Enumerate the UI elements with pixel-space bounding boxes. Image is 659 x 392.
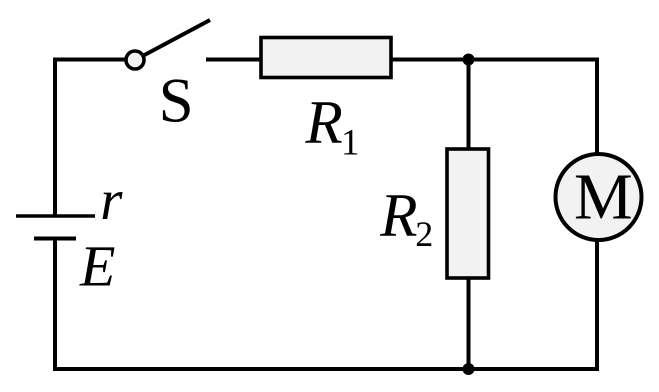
svg-text:2: 2 bbox=[415, 214, 433, 254]
wire: bottom horizontal (left corner to right corner) bbox=[53, 367, 599, 371]
motor M: circle body bbox=[556, 154, 642, 240]
svg-text:R: R bbox=[305, 89, 343, 156]
svg-text:M: M bbox=[574, 161, 633, 234]
node: top junction dot bbox=[463, 54, 475, 66]
svg-text:E: E bbox=[79, 233, 115, 298]
svg-text:R: R bbox=[379, 183, 417, 250]
battery E: long (positive) plate bbox=[16, 214, 95, 218]
switch S: pivot circle bbox=[126, 51, 144, 69]
svg-text:1: 1 bbox=[341, 123, 360, 164]
wire: R2 branch lower (R2 bottom lead to bottom junction) bbox=[467, 275, 471, 369]
wire: switch throw to R1 left lead bbox=[206, 58, 263, 62]
switch S: lever arm (open) bbox=[137, 20, 210, 59]
wire: right vertical upper (top-right corner to motor M) bbox=[595, 58, 599, 161]
wire: right vertical lower (motor M to bottom wire) bbox=[595, 235, 599, 371]
svg-text:r: r bbox=[100, 169, 123, 232]
node: bottom junction dot bbox=[463, 363, 475, 375]
resistor R1 (horizontal box) bbox=[261, 38, 391, 78]
svg-text:S: S bbox=[159, 66, 194, 136]
battery E: short (negative) plate bbox=[34, 237, 76, 241]
wire: left vertical lower (battery bottom plate down to bottom wire) bbox=[53, 239, 57, 372]
wire: top-left horizontal (left corner to switch pivot) bbox=[53, 58, 127, 62]
wire: left vertical upper (top corner down to battery top plate) bbox=[53, 58, 57, 217]
wire: R1 right lead to top-right corner bbox=[391, 58, 597, 62]
wire: R2 branch upper (top junction to R2 top lead) bbox=[467, 60, 471, 153]
resistor R2 (vertical box) bbox=[447, 149, 489, 278]
